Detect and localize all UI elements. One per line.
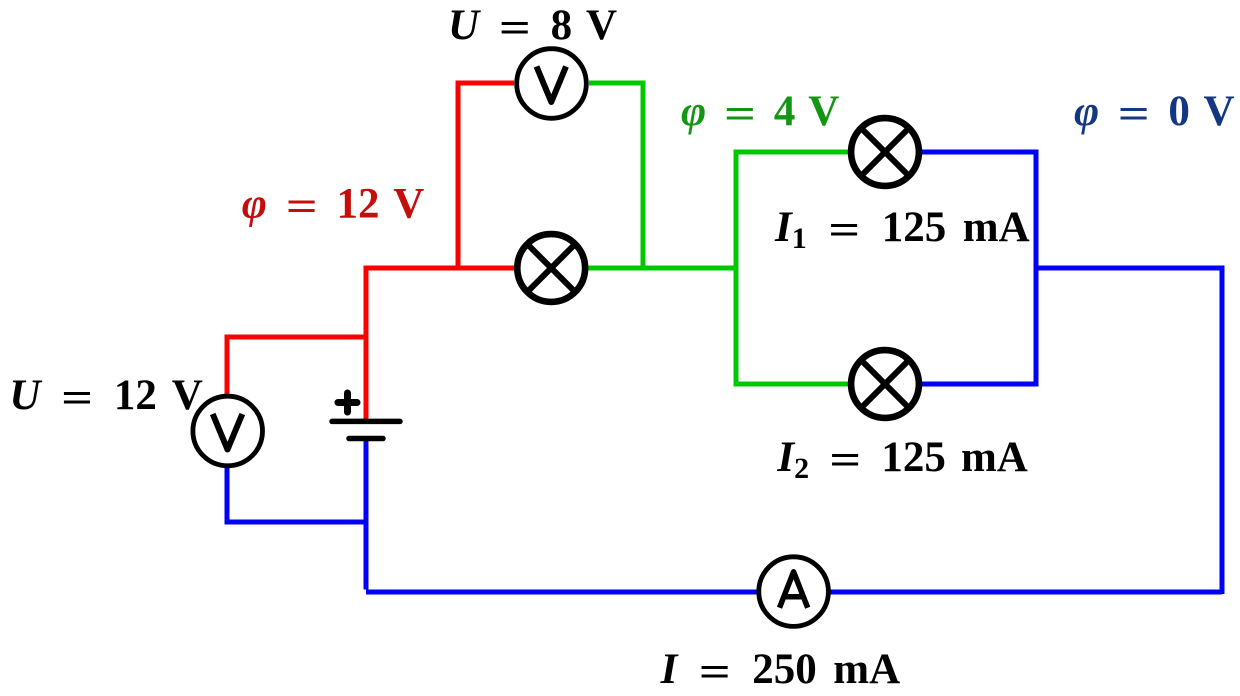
wire green: top voltmeter right lead with corner down to lamp node bbox=[589, 83, 643, 268]
svg-text:U = 12 V: U = 12 V bbox=[9, 372, 202, 422]
battery cell: long positive plate bbox=[332, 419, 400, 425]
wire blue: bottom rail through ammeter bbox=[366, 590, 1222, 595]
wire blue: right side riser and top horizontal to join node bbox=[1036, 268, 1222, 594]
wire red: node horizontal into lamp L1 at y=268 bbox=[366, 266, 514, 271]
lamp L2 (upper right branch) bbox=[851, 118, 919, 186]
wire blue: horizontal to battery negative column bbox=[225, 520, 367, 525]
wire blue: parallel join vertical bbox=[1034, 152, 1039, 384]
svg-text:I = 250 mA: I = 250 mA bbox=[660, 646, 901, 696]
ammeter A (bottom rail) bbox=[759, 557, 829, 627]
wire red: branch toward left voltmeter bbox=[227, 335, 366, 340]
voltmeter V1 (top, U = 8 V) bbox=[517, 49, 587, 119]
battery cell: short negative plate bbox=[349, 436, 383, 442]
wire blue: left voltmeter bottom lead bbox=[225, 431, 230, 522]
voltmeter V2 (left, U = 12 V) bbox=[193, 396, 263, 466]
wire green: horizontal from lamp L1 to parallel split bbox=[588, 266, 736, 271]
svg-text:I2 = 125 mA: I2 = 125 mA bbox=[776, 434, 1027, 485]
wire green: upper branch into lamp L2 bbox=[734, 150, 886, 155]
wire green: lower branch into lamp L3 bbox=[734, 382, 886, 387]
wire red: top voltmeter left lead with corner down to lamp node bbox=[458, 83, 514, 268]
wire blue: upper branch from lamp L2 bbox=[885, 150, 1039, 155]
battery plus sign bbox=[338, 393, 357, 412]
wire blue: battery negative down to bottom rail bbox=[364, 437, 369, 590]
svg-text:U = 8 V: U = 8 V bbox=[448, 2, 617, 52]
svg-text:φ = 12 V: φ = 12 V bbox=[242, 181, 424, 231]
wire blue: lower branch from lamp L3 bbox=[885, 382, 1039, 387]
svg-text:I1 = 125 mA: I1 = 125 mA bbox=[774, 204, 1030, 255]
wire red: drop into left voltmeter top bbox=[225, 335, 230, 432]
lamp L1 bbox=[517, 234, 585, 302]
wire red: vertical from node down to battery positive plate bbox=[364, 266, 369, 421]
lamp L3 (lower right branch) bbox=[851, 350, 919, 418]
svg-text:φ = 0 V: φ = 0 V bbox=[1074, 88, 1235, 138]
svg-text:φ = 4 V: φ = 4 V bbox=[681, 88, 839, 138]
wire green: parallel split vertical bbox=[734, 152, 739, 384]
